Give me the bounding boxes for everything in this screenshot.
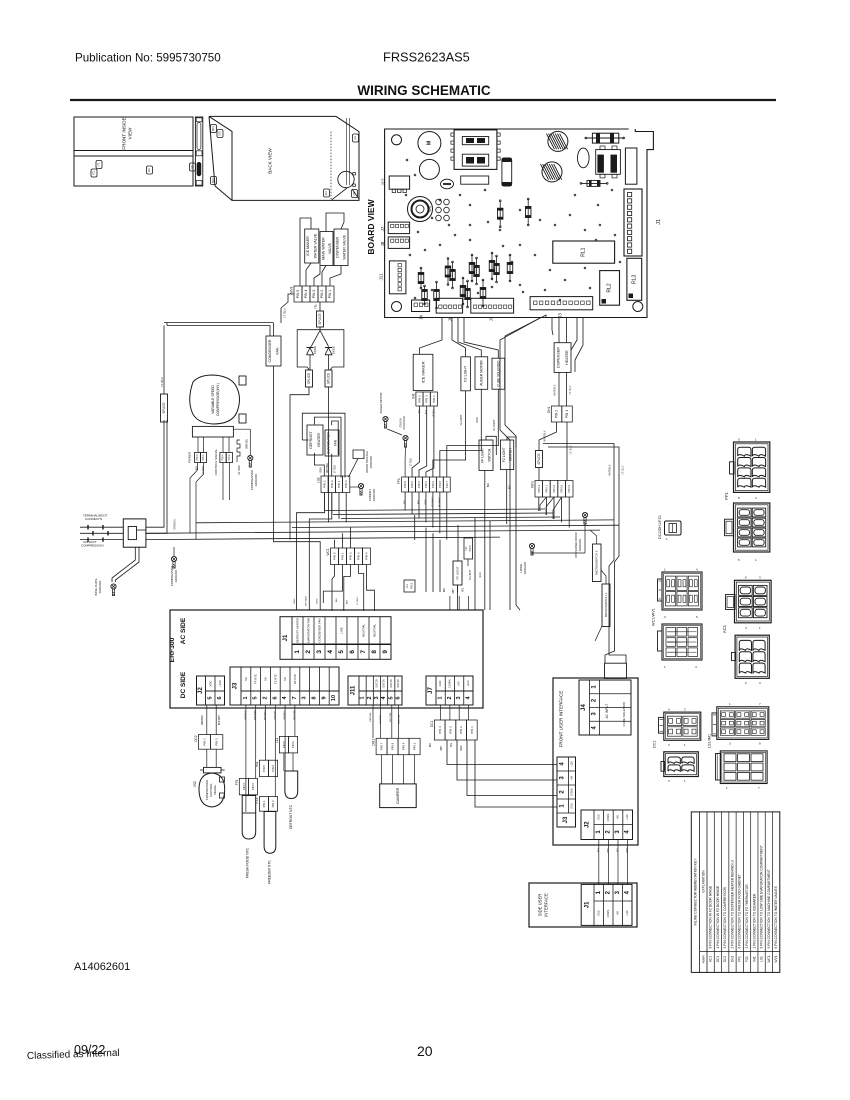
svg-text:LT. BLU: LT. BLU — [335, 465, 337, 473]
wire ERF300 J1 stub labels — [294, 596, 319, 606]
svg-text:COMPRESSION: COMPRESSION — [81, 544, 104, 548]
damper motor box — [380, 755, 417, 808]
svg-text:IM1: IM1 — [752, 956, 756, 962]
svg-text:NEUTRAL: NEUTRAL — [373, 624, 377, 637]
freezer light switch FF — [479, 440, 493, 471]
back view marker WV1 — [211, 177, 217, 185]
svg-text:PIN 2: PIN 2 — [242, 783, 246, 790]
wire fz light switch runs down — [458, 518, 491, 610]
connector FF1 pin header — [397, 477, 450, 507]
svg-text:DC1: DC1 — [430, 721, 434, 728]
svg-text:PIN 4: PIN 4 — [304, 290, 308, 299]
wire water valve branch left — [281, 294, 294, 323]
connector J1 table — [280, 617, 391, 660]
svg-text:SPLICE: SPLICE — [318, 313, 322, 324]
svg-text:BLK: BLK — [430, 742, 432, 747]
board mounting hole top-left — [392, 135, 402, 145]
front view connector marker FF1 — [96, 161, 102, 169]
svg-text:EXPLANATION: EXPLANATION — [701, 870, 705, 893]
svg-text:12 VDC: 12 VDC — [237, 465, 241, 475]
fridge front inside view outline — [74, 117, 193, 186]
svg-text:CUBE SOLENOID: CUBE SOLENOID — [622, 701, 626, 727]
svg-text:WHT: WHT — [607, 847, 609, 853]
svg-text:GROUND: GROUND — [98, 581, 102, 593]
svg-text:5V: 5V — [244, 677, 248, 681]
svg-text:DC SIDE: DC SIDE — [180, 671, 187, 698]
svg-text:2 PIN CONNECTION TO FZ THERMIS: 2 PIN CONNECTION TO FZ THERMISTOR — [745, 884, 749, 949]
svg-text:PIN 8: PIN 8 — [438, 481, 442, 488]
connector DC1 pin header — [430, 720, 477, 751]
svg-text:FF1: FF1 — [235, 779, 239, 785]
svg-text:FF1: FF1 — [724, 492, 729, 500]
svg-text:YEL: YEL — [451, 742, 453, 747]
wire DH1 pin2 to splice — [539, 422, 557, 451]
back view marker DC2 — [217, 130, 223, 138]
svg-text:WIRING SCHEMATIC: WIRING SCHEMATIC — [357, 83, 490, 98]
svg-text:J7: J7 — [428, 687, 434, 694]
svg-text:INTERFACE: INTERFACE — [544, 893, 549, 917]
splice S5 — [536, 451, 543, 468]
svg-text:IM1: IM1 — [411, 393, 415, 399]
svg-text:J3: J3 — [558, 313, 563, 318]
freezer NTC — [264, 812, 276, 884]
svg-text:SIGNAL: SIGNAL — [213, 784, 217, 795]
connector IM1b pin header — [255, 760, 278, 776]
svg-text:M: M — [426, 141, 432, 145]
svg-text:J4: J4 — [419, 315, 424, 320]
svg-text:WV1: WV1 — [290, 286, 294, 293]
svg-text:J4: J4 — [581, 704, 587, 711]
svg-text:1: 1 — [294, 650, 301, 654]
svg-text:1: 1 — [360, 696, 366, 699]
ice maker — [413, 354, 433, 390]
svg-text:PIN 6: PIN 6 — [251, 783, 255, 790]
svg-text:GRY/BLU: GRY/BLU — [284, 710, 286, 720]
svg-text:PIN 3: PIN 3 — [425, 395, 429, 403]
svg-text:GRN/YEL: GRN/YEL — [174, 518, 177, 530]
condenser fan — [266, 336, 281, 366]
side user interface box — [529, 883, 637, 927]
connector J3 on board — [530, 297, 593, 318]
svg-text:FF1: FF1 — [406, 583, 409, 588]
title rule — [70, 99, 776, 101]
svg-text:BRN: BRN — [321, 467, 323, 472]
svg-text:AC1: AC1 — [325, 190, 328, 195]
front view connector marker IM1 — [147, 166, 153, 174]
connector L11 pin header — [275, 736, 298, 753]
wire cube solenoid lead — [447, 389, 499, 477]
svg-text:VSC: VSC — [193, 780, 197, 787]
svg-text:YEL/WHT: YEL/WHT — [460, 414, 463, 426]
svg-text:IM1: IM1 — [148, 167, 151, 172]
relay RL3 — [627, 258, 642, 300]
wire J11 pins down — [370, 705, 401, 738]
capacitor C3 vertical — [502, 158, 512, 186]
svg-text:LT. BLU: LT. BLU — [160, 377, 164, 386]
svg-text:FF1: FF1 — [465, 546, 468, 551]
connector J12 on board — [381, 176, 410, 193]
svg-text:COMM.: COMM. — [607, 909, 610, 918]
ff pin5 tag lower — [404, 580, 458, 592]
back view marker LS1 — [353, 134, 359, 142]
wire FF1 pins to bus — [405, 492, 447, 540]
svg-text:+5V: +5V — [617, 815, 620, 820]
svg-text:WATER VALVE: WATER VALVE — [313, 233, 317, 258]
svg-text:PIN 8: PIN 8 — [391, 742, 395, 750]
wire board J3 to dispenser group — [552, 318, 583, 372]
wire J7 pins down — [441, 705, 469, 720]
svg-text:LT. BLU: LT. BLU — [357, 597, 359, 605]
svg-text:DIODE: DIODE — [332, 346, 336, 354]
wire auger motor lead — [440, 389, 481, 477]
svg-text:RED: RED — [627, 847, 629, 852]
svg-text:FF1: FF1 — [738, 956, 742, 962]
wire J2 pins down — [202, 705, 221, 735]
wire defrost heater leads — [302, 413, 345, 477]
svg-text:WHT/BLK: WHT/BLK — [554, 384, 557, 395]
svg-text:2: 2 — [367, 696, 373, 699]
svg-text:BLU: BLU — [336, 597, 338, 602]
svg-text:ERF300: ERF300 — [169, 637, 176, 662]
svg-text:Publication No: 5995730750: Publication No: 5995730750 — [75, 52, 221, 65]
svg-text:RED: RED — [461, 745, 463, 750]
back view compressor circle — [338, 171, 356, 187]
svg-text:MICROSWITCH 1: MICROSWITCH 1 — [604, 593, 608, 618]
svg-text:DEFROST HEATER: DEFROST HEATER — [296, 618, 300, 643]
svg-text:WC1: WC1 — [212, 125, 215, 131]
compressor ground G1 — [233, 429, 258, 490]
svg-text:5: 5 — [253, 696, 259, 699]
wire microswitch leads — [590, 530, 606, 584]
wire valve loop — [300, 213, 344, 286]
svg-text:BLK/YEL: BLK/YEL — [380, 714, 382, 724]
connector J3 table — [230, 667, 339, 705]
svg-text:A14062601: A14062601 — [74, 961, 130, 973]
svg-text:FZ LIGHT: FZ LIGHT — [502, 447, 506, 462]
resistor R2 — [580, 180, 608, 186]
svg-text:BLK: BLK — [598, 847, 600, 852]
svg-text:OUT1B: OUT1B — [390, 679, 393, 688]
svg-text:SPLICE: SPLICE — [537, 453, 541, 464]
svg-text:LS1: LS1 — [354, 135, 357, 140]
svg-text:INLINE CONNECTOR ABBREVIATION: INLINE CONNECTOR ABBREVIATION KEY — [693, 858, 697, 926]
connector J7 table — [426, 676, 473, 705]
svg-text:PIN 6: PIN 6 — [271, 764, 275, 771]
svg-text:BRN: BRN — [476, 417, 479, 422]
svg-text:PIN 1: PIN 1 — [341, 552, 345, 560]
svg-text:PIN 3: PIN 3 — [312, 290, 316, 299]
svg-text:PIN 9: PIN 9 — [403, 481, 407, 488]
svg-text:LT. BLU: LT. BLU — [411, 458, 413, 466]
wire dispenser heater leads — [554, 372, 573, 406]
connector J8 on board — [380, 237, 410, 249]
svg-text:FZ LIGHT: FZ LIGHT — [464, 365, 468, 382]
svg-text:L11: L11 — [275, 738, 279, 743]
svg-text:J3: J3 — [563, 816, 569, 823]
connector WV1 pin header — [290, 286, 335, 302]
svg-text:WF1: WF1 — [531, 481, 535, 488]
connector J4 table FUI — [579, 680, 631, 735]
svg-text:FZ NTC: FZ NTC — [273, 674, 277, 684]
wire compressor power down — [190, 463, 204, 540]
speaker SP1 — [408, 197, 450, 222]
svg-text:J11: J11 — [379, 273, 384, 280]
svg-text:MICROSWITCH 2: MICROSWITCH 2 — [595, 550, 599, 575]
svg-text:AC1: AC1 — [709, 956, 713, 962]
relay RL2 — [600, 271, 620, 306]
svg-text:FZ1: FZ1 — [353, 191, 356, 196]
diode D1 — [307, 346, 318, 364]
svg-text:DC2: DC2 — [194, 735, 198, 742]
svg-text:PIN 4: PIN 4 — [365, 552, 369, 560]
back view marker AC1 — [324, 189, 330, 197]
connector WF1 pin header — [531, 481, 574, 498]
connector pictorial AC1 lower — [732, 635, 770, 685]
inductor L1 — [596, 146, 621, 178]
connector WC1 pin header — [326, 548, 371, 565]
svg-text:PIN 3: PIN 3 — [330, 480, 334, 488]
svg-text:FRESH FOOD NTC: FRESH FOOD NTC — [246, 847, 250, 878]
svg-text:VARIABLE SPEED: VARIABLE SPEED — [211, 385, 215, 414]
svg-text:PIN 6: PIN 6 — [291, 741, 295, 748]
wire icemaker loop top — [420, 318, 499, 358]
splice S2 — [306, 370, 313, 387]
ice maker water valve — [305, 229, 319, 263]
board mounting hole bottom-left — [392, 302, 402, 312]
svg-text:PIN 1: PIN 1 — [202, 454, 205, 461]
svg-text:J12: J12 — [381, 178, 386, 186]
svg-text:DC2: DC2 — [219, 130, 222, 135]
wire FUI J2 to side UI — [598, 840, 629, 885]
svg-text:FZ1: FZ1 — [745, 956, 749, 962]
svg-text:PIN 5: PIN 5 — [469, 545, 472, 552]
svg-text:WHT/BLK: WHT/BLK — [609, 464, 612, 475]
svg-text:IM1: IM1 — [255, 761, 259, 767]
connector pictorial FF1 upper — [724, 438, 770, 501]
svg-text:WC1: WC1 — [326, 548, 330, 555]
svg-text:COMM.: COMM. — [570, 788, 573, 797]
diode D2 — [325, 346, 336, 364]
svg-text:5: 5 — [207, 696, 213, 699]
svg-text:SPLICE: SPLICE — [162, 402, 166, 413]
wire light switch tops — [485, 436, 516, 543]
wire splice to power cord — [146, 420, 177, 533]
compressor control signal circle — [193, 749, 225, 807]
svg-text:PIN 2: PIN 2 — [215, 738, 219, 746]
wire WF1 diagonal fan — [540, 497, 562, 519]
svg-text:7: 7 — [292, 696, 298, 699]
svg-text:DH1: DH1 — [730, 956, 734, 963]
svg-text:GROUND: GROUND — [254, 474, 258, 486]
connector J11 on board — [379, 261, 406, 294]
svg-text:RL1: RL1 — [581, 247, 587, 256]
svg-text:SWITCH: SWITCH — [508, 448, 512, 462]
svg-text:PIN 5: PIN 5 — [296, 290, 300, 299]
svg-text:PIN 2: PIN 2 — [418, 395, 422, 403]
12 VDC signal symbol — [237, 440, 241, 475]
capacitor C4 hatched — [546, 131, 568, 151]
svg-text:LS1: LS1 — [317, 477, 321, 483]
svg-text:1: 1 — [243, 696, 249, 699]
svg-text:PIN 2: PIN 2 — [417, 481, 421, 488]
svg-text:7: 7 — [360, 650, 367, 654]
connector J4 on board — [412, 300, 430, 320]
front view door hinge strip — [195, 117, 202, 186]
dispenser door ground G8 — [532, 512, 588, 557]
wire LS1 pins down to bus — [325, 493, 347, 523]
svg-text:FRSS2623AS5: FRSS2623AS5 — [383, 50, 470, 65]
wire diodes to splices — [310, 364, 329, 372]
compressor variable speed — [190, 375, 246, 424]
svg-text:WC1: WC1 — [767, 955, 771, 962]
svg-text:BLK: BLK — [347, 599, 349, 604]
svg-text:PIN 5: PIN 5 — [333, 552, 337, 560]
svg-text:PIN 1: PIN 1 — [337, 480, 341, 488]
svg-text:GROUND: GROUND — [369, 456, 373, 468]
svg-text:2: 2 — [447, 696, 453, 699]
svg-text:J3: J3 — [233, 682, 239, 689]
svg-text:RL3: RL3 — [631, 275, 637, 284]
svg-text:WHT: WHT — [453, 588, 455, 594]
svg-text:GRY/RED: GRY/RED — [255, 710, 257, 720]
svg-text:LT. BLU: LT. BLU — [622, 465, 625, 474]
svg-text:PIN 2: PIN 2 — [323, 480, 327, 488]
cabinet ground G4 — [350, 483, 376, 501]
connector pictorial WC1/WV1 upper — [658, 568, 703, 620]
svg-text:GRY/BLK: GRY/BLK — [245, 710, 247, 720]
wire splice to diodes — [311, 327, 328, 346]
svg-text:FF LIGHT: FF LIGHT — [456, 566, 460, 580]
svg-text:BLU/WHT: BLU/WHT — [493, 419, 496, 431]
splice S1 — [317, 311, 324, 327]
svg-text:ABBR.: ABBR. — [701, 954, 705, 963]
svg-text:5V: 5V — [264, 677, 268, 681]
svg-text:AC SIDE: AC SIDE — [180, 617, 187, 644]
ff pin5 tag upper — [464, 538, 473, 566]
svg-text:8: 8 — [312, 696, 318, 699]
svg-text:10: 10 — [331, 695, 337, 701]
fridge back view outline — [209, 116, 359, 200]
cube solenoid box — [492, 358, 505, 389]
freezer light switch FZ — [501, 440, 514, 470]
svg-text:CONTROL SIGNAL: CONTROL SIGNAL — [214, 448, 218, 475]
svg-text:SPLICE: SPLICE — [307, 373, 311, 384]
svg-text:FREEZER NTC: FREEZER NTC — [268, 860, 272, 884]
drain trough ground flag — [349, 450, 374, 477]
svg-text:9 PIN CONNECTION TO MACHINE CO: 9 PIN CONNECTION TO MACHINE COMPARTMENT — [767, 869, 771, 948]
svg-text:1: 1 — [438, 696, 444, 699]
connector pictorial DC2/DH1/FZ1 — [658, 515, 681, 541]
connector pictorial DC1 lower — [661, 752, 698, 783]
svg-text:2 PIN CONNECTION TO DISPENSER: 2 PIN CONNECTION TO DISPENSER HEATER BEH… — [730, 860, 734, 948]
svg-text:CRUSH: CRUSH — [399, 418, 403, 427]
svg-text:POWER: POWER — [188, 451, 192, 463]
svg-text:GRY/GRN: GRY/GRN — [294, 709, 296, 720]
svg-text:SPLICE: SPLICE — [327, 373, 331, 384]
svg-text:+5V: +5V — [616, 911, 619, 916]
svg-text:5: 5 — [388, 696, 394, 699]
svg-text:+12V: +12V — [626, 814, 629, 820]
svg-text:NEUTRAL: NEUTRAL — [362, 624, 366, 637]
svg-text:+12V: +12V — [626, 910, 629, 916]
hinge ground G7 — [519, 543, 535, 574]
svg-text:WHT/YEL: WHT/YEL — [390, 711, 392, 722]
connector J1 on board — [624, 189, 662, 256]
svg-text:BACK VIEW: BACK VIEW — [268, 148, 273, 174]
svg-text:2: 2 — [263, 696, 269, 699]
svg-text:WV1: WV1 — [774, 955, 778, 962]
connector J2 table FUI — [581, 810, 633, 840]
component D small oval — [441, 179, 454, 189]
svg-text:FF NTC: FF NTC — [254, 674, 258, 684]
svg-text:9: 9 — [382, 650, 389, 654]
connector J6 on board — [436, 298, 462, 321]
svg-text:3: 3 — [302, 696, 308, 699]
main water valve — [320, 232, 333, 266]
svg-text:GND: GND — [597, 910, 600, 916]
svg-text:J1: J1 — [585, 901, 591, 908]
front view connector marker FZ1 — [91, 169, 97, 177]
capacitor C2 — [419, 159, 439, 179]
svg-text:DC1: DC1 — [653, 740, 657, 748]
auger motor box — [475, 357, 488, 390]
crush solenoid ground G6 — [399, 416, 413, 477]
svg-text:RED/BLK: RED/BLK — [202, 715, 204, 725]
svg-text:DM1: DM1 — [372, 739, 376, 746]
svg-text:J2: J2 — [489, 316, 494, 321]
svg-text:FAN: FAN — [334, 439, 338, 446]
svg-text:WC1/WV1: WC1/WV1 — [652, 608, 656, 626]
svg-text:PIN 4: PIN 4 — [402, 742, 406, 750]
svg-text:LT. BLU: LT. BLU — [283, 308, 287, 317]
svg-text:MAIN WATER: MAIN WATER — [321, 237, 325, 260]
svg-text:4: 4 — [327, 650, 334, 654]
svg-text:DH1: DH1 — [191, 164, 194, 169]
svg-text:DISPENSER: DISPENSER — [556, 347, 560, 368]
front view marker DH1 — [190, 163, 196, 171]
svg-text:OUT1A: OUT1A — [397, 679, 400, 688]
svg-text:6: 6 — [217, 696, 223, 699]
svg-text:GND: GND — [570, 803, 573, 809]
svg-text:PIN 1: PIN 1 — [328, 290, 332, 299]
connector J7 on board — [380, 222, 410, 234]
component below transformer — [461, 176, 489, 184]
svg-text:GROUND: GROUND — [372, 489, 376, 501]
svg-text:FAN: FAN — [275, 347, 279, 354]
back view marker WC1 — [211, 125, 217, 133]
svg-text:SWITCH: SWITCH — [488, 448, 492, 462]
connector J1 table SUI — [581, 884, 632, 925]
board resistor cluster — [418, 198, 531, 309]
wire right loop pair — [543, 444, 626, 664]
svg-text:BLK: BLK — [488, 482, 490, 487]
svg-text:AUGER MOTOR: AUGER MOTOR — [479, 360, 483, 386]
svg-text:PIN 6: PIN 6 — [357, 552, 361, 560]
svg-text:BOARD VIEW: BOARD VIEW — [366, 198, 376, 254]
svg-text:WHT/BLK: WHT/BLK — [544, 430, 547, 441]
dispenser water valve — [334, 229, 348, 266]
svg-text:DC2: DC2 — [723, 956, 727, 963]
connector J11 table — [348, 676, 402, 705]
svg-text:DEFROST: DEFROST — [309, 431, 313, 449]
svg-text:VALVE: VALVE — [328, 242, 332, 254]
svg-text:PIN 2: PIN 2 — [271, 800, 275, 807]
defrost NTC — [284, 753, 298, 829]
svg-text:BRN: BRN — [294, 598, 296, 603]
svg-text:FZ1: FZ1 — [93, 170, 96, 175]
svg-text:PIN 4: PIN 4 — [222, 454, 225, 461]
connector FZ1b pin header — [255, 797, 278, 812]
